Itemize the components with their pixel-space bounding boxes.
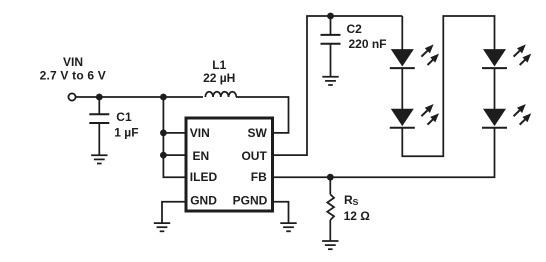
wire: PGND pin to ground xyxy=(273,202,289,223)
svg-text:12 Ω: 12 Ω xyxy=(344,209,371,223)
node: junction at C2 xyxy=(327,13,334,20)
ground (GND pin) xyxy=(154,223,170,231)
wire: GND pin to ground xyxy=(162,202,186,223)
ground (C2) xyxy=(322,77,338,85)
ground (Rs) xyxy=(322,241,338,249)
IC U1 box xyxy=(186,118,273,211)
svg-text:ILED: ILED xyxy=(190,170,218,184)
input terminal xyxy=(68,93,75,100)
svg-text:FB: FB xyxy=(251,170,267,184)
svg-text:GND: GND xyxy=(190,194,217,208)
wire: EN pin stub xyxy=(163,154,188,156)
ground (C1) xyxy=(91,155,107,163)
node: junction at EN branch xyxy=(160,94,167,101)
svg-text:2.7 V to 6 V: 2.7 V to 6 V xyxy=(40,69,106,83)
LED D1 xyxy=(390,44,439,68)
inductor L1 xyxy=(205,92,236,97)
svg-text:C2: C2 xyxy=(347,22,363,36)
svg-text:22 µH: 22 µH xyxy=(203,71,235,85)
svg-text:1 µF: 1 µF xyxy=(114,126,138,140)
wire: D3 cathode to D4 anode xyxy=(494,68,496,109)
node: junction at C1 xyxy=(96,94,103,101)
wire: LED string 1 anode xyxy=(401,16,403,50)
wire: input terminal to inductor L1 xyxy=(76,96,203,98)
wire: VIN rail down to EN and ILED xyxy=(163,97,188,177)
svg-text:RS: RS xyxy=(344,193,359,207)
wire: L1 to SW pin xyxy=(236,97,289,133)
LED D3 xyxy=(482,44,531,68)
wire: D1 cathode to D2 anode xyxy=(401,68,403,109)
node: junction at VIN pin xyxy=(160,130,167,137)
resistor Rs xyxy=(329,177,331,194)
svg-text:VIN: VIN xyxy=(190,126,210,140)
svg-text:EN: EN xyxy=(193,149,210,163)
wire: OUT pin up to top rail xyxy=(273,16,403,155)
wire: VIN pin stub xyxy=(163,132,188,134)
ground (PGND pin) xyxy=(280,223,296,231)
svg-text:220 nF: 220 nF xyxy=(349,37,387,51)
svg-text:OUT: OUT xyxy=(241,149,267,163)
LED D4 xyxy=(482,104,531,128)
node: junction at FB / Rs xyxy=(327,174,334,181)
node: junction at EN pin xyxy=(160,152,167,159)
capacitor C1 xyxy=(98,97,100,114)
wire: string 1 cathode over to string 2 top rail xyxy=(402,16,494,156)
LED D2 xyxy=(390,104,439,128)
svg-text:SW: SW xyxy=(247,126,267,140)
svg-text:PGND: PGND xyxy=(233,194,268,208)
wire: string 2 cathode down and left to FB pin xyxy=(273,128,495,178)
svg-text:VIN: VIN xyxy=(63,55,83,69)
capacitor C2 xyxy=(330,16,332,35)
svg-text:C1: C1 xyxy=(116,110,132,124)
